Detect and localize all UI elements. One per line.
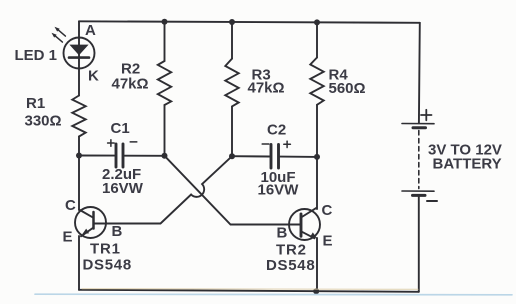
value label 560 ohm [329,80,366,97]
svg-text:B: B [277,225,288,242]
label R1 [26,95,45,112]
resistor R4 560 ohm zigzag [310,58,323,105]
pin label A (LED anode) [85,22,96,39]
value label 47k ohm (R2) [112,76,149,93]
wire LED1 anode lead from top rail through LED to R1 [78,21,80,95]
wire cross-coupling: right node to TR1 base with hop over [95,156,232,223]
wire TR2 collector lead from C2 node [316,157,318,209]
label C1 [111,120,130,137]
label R2 [121,61,140,78]
pin label C (TR1 collector) [65,197,76,214]
svg-text:C2: C2 [267,122,286,139]
wire TR1 emitter lead to bottom rail [78,236,80,290]
battery B1 positive long plate (lower cell) [402,190,434,192]
resistor R1 330 ohm zigzag [72,96,85,137]
node R4 / C2 right / TR2 collector junction [314,154,320,160]
svg-text:16VW: 16VW [258,182,300,199]
C2 - polarity mark [262,143,269,145]
value label 330 ohm [25,113,62,130]
LED1 light emission arrows [52,27,66,42]
part number label DS548 (TR2) [266,257,315,274]
svg-text:DS548: DS548 [266,257,315,274]
svg-text:BATTERY: BATTERY [433,156,502,173]
wire C2 right lead [280,156,317,158]
capacitor C1 2.2uF [116,144,123,167]
value label 47k ohm (R3) [248,80,285,97]
part number label DS548 (TR1) [83,257,132,274]
wire C1 right lead to left cross node [125,155,165,157]
label TR1 [90,241,121,258]
capacitor C2 10uF [271,145,279,169]
value label 10uF [261,169,296,186]
svg-text:K: K [88,68,99,85]
wire R2 top lead [164,22,166,61]
svg-text:E: E [323,233,333,250]
label R3 [252,67,271,84]
pin label B (TR1 base) [112,223,123,240]
label 3V TO 12V [428,142,502,159]
label R4 [329,67,349,84]
resistor R3 47k zigzag [225,59,238,107]
value label 2.2uF [102,166,141,183]
wire TR2 emitter lead to bottom rail [316,238,318,291]
svg-text:TR2: TR2 [276,242,307,259]
wire bottom rail (0V) [79,290,419,292]
battery - polarity label [427,200,437,202]
battery + polarity label [421,110,432,121]
svg-text:560Ω: 560Ω [329,80,366,97]
battery B1 negative short plate (lower cell) [413,194,426,197]
svg-text:LED 1: LED 1 [15,47,58,64]
svg-text:330Ω: 330Ω [25,113,62,130]
node top rail / R4 junction [314,19,320,25]
label C2 [267,122,286,139]
wire R1 bottom to C1 node [78,137,80,156]
value label 16VW (C1) [102,180,144,197]
svg-text:C: C [322,202,333,219]
svg-text:16VW: 16VW [102,180,144,197]
pin label B (TR2 base) [277,225,288,242]
svg-text:DS548: DS548 [83,257,132,274]
wire top rail (V+) [79,21,420,23]
wire C2 left lead [232,155,269,157]
svg-text:E: E [63,229,73,246]
wire right edge: top rail to battery + plate [418,23,421,124]
value label 16VW (C2) [258,182,300,199]
wire cross-coupling: left node to TR2 base [165,156,300,225]
wire R4 bottom lead to C2 node / TR2 collector [316,105,318,157]
label TR2 [276,242,307,259]
node bottom rail / TR2 emitter junction [313,288,319,294]
C2 + polarity mark [284,141,291,147]
C1 + polarity mark [108,140,115,146]
wire TR1 collector lead from C1 node [78,156,80,211]
wire R4 top lead [316,22,318,57]
wire R2 bottom lead [164,105,166,156]
C1 - polarity mark [130,141,137,143]
battery dashed middle (multiple cells) [418,131,420,189]
svg-text:C1: C1 [111,120,130,137]
pin label E (TR2 emitter) [323,233,333,250]
node R3 / C2 / cross-wire junction [229,153,235,159]
svg-text:47kΩ: 47kΩ [248,80,285,97]
label LED 1 [15,47,58,64]
svg-text:47kΩ: 47kΩ [112,76,149,93]
transistor TR2 DS548 [289,208,320,240]
wire R3 bottom lead [231,106,233,156]
LED LED1 [64,38,95,69]
svg-text:B: B [112,223,123,240]
wire R3 top lead [231,22,233,59]
wire battery negative lead to bottom rail [418,197,420,292]
pin label K (LED cathode) [88,68,99,85]
svg-text:A: A [85,22,96,39]
svg-text:TR1: TR1 [90,241,121,258]
svg-text:R1: R1 [26,95,45,112]
resistor R2 47k zigzag [158,61,171,105]
pin label E (TR1 emitter) [63,229,73,246]
pin label C (TR2 collector) [322,202,333,219]
transistor TR1 DS548 [75,207,106,238]
battery B1 positive long plate [402,123,434,125]
node R1 / C1 / TR1 collector junction [76,153,82,159]
label BATTERY [433,156,502,173]
node top rail / R3 junction [229,19,235,25]
wire C1 left lead [79,155,114,157]
node R2 / C1 / cross-wire junction [162,153,168,159]
svg-text:C: C [65,197,76,214]
battery B1 negative short plate (upper cell) [413,126,426,129]
node top rail / R2 junction [162,19,168,25]
